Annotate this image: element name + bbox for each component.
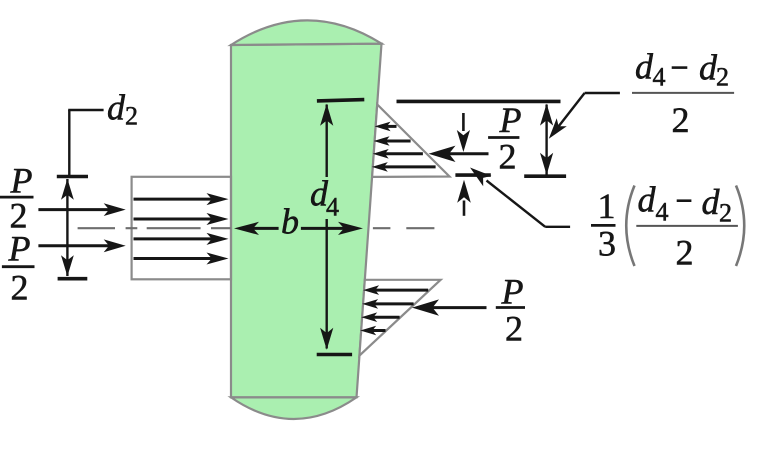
top extension line at d4 level	[397, 100, 561, 104]
(d4-d2)/2 arrowhead down	[540, 153, 553, 175]
svg-text:1: 1	[598, 186, 616, 226]
lower triangle load arrow 3	[372, 316, 400, 319]
minus sign (inner)	[677, 199, 692, 202]
upper triangle load arrow 2	[384, 140, 411, 143]
upper triangle load arrow 4	[382, 165, 435, 168]
d2 leader bracket horizontal	[68, 109, 103, 111]
svg-text:4: 4	[653, 63, 666, 92]
svg-text:d: d	[107, 88, 126, 128]
svg-text:2: 2	[719, 199, 732, 228]
leader line to 1/3 label	[487, 181, 546, 227]
svg-text:2: 2	[676, 233, 694, 273]
opening parenthesis	[626, 186, 634, 267]
svg-text:d: d	[635, 46, 654, 86]
fraction bar (1/3)	[591, 224, 616, 227]
lower P/2 resultant arrow	[430, 306, 487, 309]
svg-text:d: d	[638, 180, 657, 220]
d2 top extension tick	[57, 175, 88, 179]
d4 top extension tick	[317, 100, 364, 101]
d4 dimension line upper	[326, 105, 328, 178]
b dimension right arrow	[301, 227, 347, 230]
collar bottom bowl	[231, 397, 357, 419]
svg-text:P: P	[499, 100, 522, 140]
upper P/2 resultant arrow	[446, 152, 488, 155]
d2 bottom extension tick	[58, 277, 88, 281]
(d4-d2)/2 arrowhead up	[540, 104, 553, 126]
leader arrowhead at centroid gap	[470, 168, 491, 187]
svg-text:2: 2	[672, 100, 690, 140]
fraction bar (upper right P/2)	[488, 136, 519, 139]
svg-text:4: 4	[326, 192, 339, 221]
upper P/2 force arrow (left)	[38, 208, 111, 211]
collar cross-section body (green frustum)	[231, 44, 382, 398]
upper load triangle outline	[372, 104, 449, 176]
svg-text:2: 2	[11, 268, 29, 308]
svg-text:d: d	[702, 182, 721, 222]
upper triangle load arrow 3	[383, 152, 423, 155]
svg-text:P: P	[8, 229, 31, 269]
fraction bar (lower left P/2)	[2, 265, 35, 268]
upper triangle load arrow 1	[385, 125, 397, 128]
d2 leader bracket vertical	[68, 110, 70, 176]
centerline (dash-dot axis)	[78, 227, 435, 229]
fraction bar (upper left P/2)	[0, 196, 34, 199]
svg-text:2: 2	[125, 101, 138, 130]
uniform load arrow 1 on left member	[134, 198, 215, 201]
uniform load arrow 4 on left member	[134, 257, 215, 260]
lower triangle load arrow 4	[371, 329, 386, 332]
d4 bottom extension tick	[317, 353, 352, 357]
left member outline	[132, 177, 231, 279]
minus sign (numerator)	[672, 66, 688, 69]
d4 dimension arrowhead up	[320, 104, 333, 126]
d2 dimension arrowhead up	[61, 179, 74, 200]
lower triangle load arrow 2	[373, 302, 414, 305]
svg-text:2: 2	[499, 137, 517, 177]
(d4-d2)/2 bottom extension tick	[524, 174, 566, 178]
d4 dimension line lower	[326, 219, 328, 349]
closing parenthesis	[736, 186, 744, 267]
d2 dimension arrowhead down	[61, 255, 74, 276]
fraction bar (lower right P/2)	[496, 306, 525, 309]
uniform load arrow 3 on left member	[134, 237, 215, 240]
centroid pointer arrow down	[462, 113, 465, 131]
svg-text:b: b	[281, 202, 299, 242]
leader arrowhead at dimension line	[549, 118, 567, 139]
svg-text:4: 4	[656, 197, 669, 226]
fraction bar (d4-d2)/2	[632, 92, 734, 94]
svg-text:P: P	[10, 160, 33, 200]
svg-text:3: 3	[598, 223, 616, 263]
lower P/2 force arrow (left)	[38, 244, 111, 247]
leader line to (d4-d2)/2 label	[585, 92, 620, 94]
d2 dimension line	[66, 179, 68, 276]
centroid pointer arrow up	[457, 180, 471, 203]
centroid level tick	[455, 173, 490, 177]
lower load triangle outline	[359, 280, 440, 356]
uniform load arrow 2 on left member	[134, 218, 215, 221]
lower triangle load arrow 1	[374, 289, 429, 292]
d4 dimension arrowhead down	[320, 328, 333, 350]
fraction bar (inner)	[636, 225, 738, 227]
svg-text:P: P	[501, 271, 524, 311]
(d4-d2)/2 dimension line	[545, 105, 547, 175]
svg-text:2: 2	[716, 63, 729, 92]
b dimension left arrow	[250, 227, 278, 230]
svg-text:2: 2	[505, 308, 523, 348]
collar top dome	[231, 20, 382, 45]
